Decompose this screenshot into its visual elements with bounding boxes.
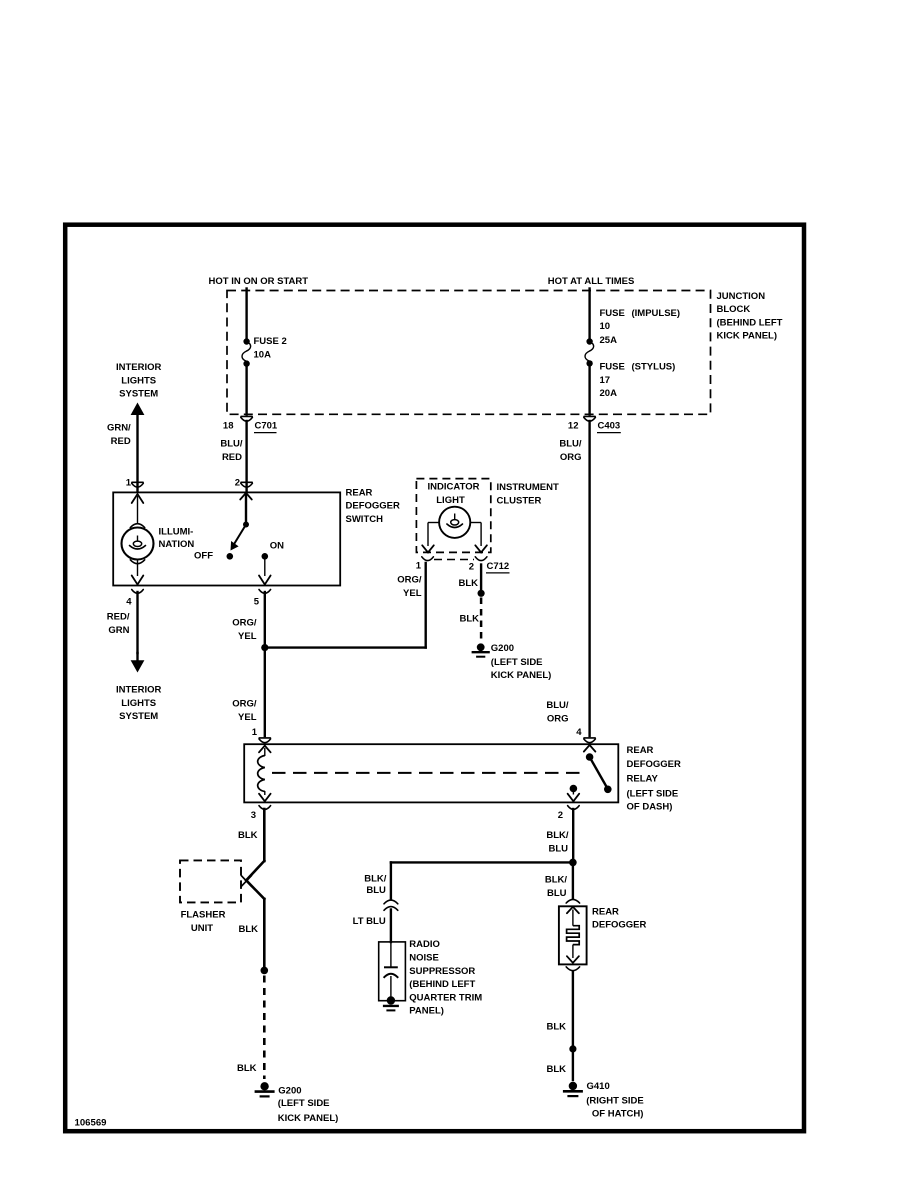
svg-text:(IMPULSE): (IMPULSE) bbox=[632, 308, 681, 319]
svg-text:18: 18 bbox=[223, 421, 234, 432]
svg-text:BLU/: BLU/ bbox=[559, 438, 582, 449]
switch S1 REAR DEFOGGER SWITCH box bbox=[113, 492, 340, 585]
relay coil bbox=[258, 746, 271, 802]
flasher unit dashed box bbox=[180, 860, 241, 933]
svg-text:NOISE: NOISE bbox=[409, 952, 439, 963]
node splice BLK bbox=[478, 590, 485, 597]
node splice BLK defogger bbox=[569, 1045, 576, 1052]
svg-text:(BEHIND LEFT: (BEHIND LEFT bbox=[717, 317, 783, 328]
switch arm OFF/ON bbox=[194, 493, 252, 562]
wire BLK (defogger to splice) bbox=[546, 972, 572, 1046]
svg-text:C403: C403 bbox=[598, 421, 621, 432]
relay switch arm bbox=[584, 745, 612, 793]
svg-text:ILLUMI-: ILLUMI- bbox=[159, 526, 194, 537]
arrow to interior lights system (bottom) bbox=[116, 653, 162, 722]
capacitor C RADIO NOISE SUPPRESSOR box bbox=[379, 939, 483, 1017]
svg-text:(BEHIND LEFT: (BEHIND LEFT bbox=[409, 979, 475, 990]
wire kink at flasher unit bbox=[246, 861, 264, 880]
svg-text:FUSE: FUSE bbox=[600, 361, 625, 372]
ground G200 (left side kick panel) upper bbox=[472, 643, 552, 681]
svg-text:3: 3 bbox=[251, 810, 256, 821]
wire RED/GRN (pin 4 down) bbox=[107, 592, 138, 653]
svg-text:RELAY: RELAY bbox=[627, 774, 659, 785]
fuse F2 (FUSE 2 10A) bbox=[242, 336, 287, 367]
svg-text:HOT IN ON OR START: HOT IN ON OR START bbox=[209, 276, 309, 287]
node splice BLK/BLU bbox=[569, 859, 577, 867]
relay label bbox=[627, 745, 682, 812]
label ORG/YEL at C712 pin 1 bbox=[397, 574, 422, 598]
svg-text:BLU: BLU bbox=[548, 844, 568, 855]
wire fuses to connector C403 bbox=[588, 363, 590, 414]
svg-text:RED: RED bbox=[222, 452, 242, 463]
wire BLK dashed to ground G200 bbox=[459, 598, 481, 645]
svg-text:NATION: NATION bbox=[159, 539, 195, 550]
svg-text:FLASHER: FLASHER bbox=[181, 909, 226, 920]
svg-text:10A: 10A bbox=[254, 350, 272, 361]
svg-text:(LEFT SIDE: (LEFT SIDE bbox=[491, 657, 543, 668]
svg-text:LIGHTS: LIGHTS bbox=[121, 375, 156, 386]
connector pin 4 of switch bbox=[126, 590, 143, 608]
svg-text:INTERIOR: INTERIOR bbox=[116, 684, 162, 695]
svg-text:ORG: ORG bbox=[547, 713, 569, 724]
svg-text:BLU: BLU bbox=[547, 888, 567, 899]
svg-text:BLK/: BLK/ bbox=[546, 830, 569, 841]
svg-text:INSTRUMENT: INSTRUMENT bbox=[497, 482, 559, 493]
svg-text:SWITCH: SWITCH bbox=[346, 514, 384, 525]
svg-text:17: 17 bbox=[600, 375, 611, 386]
svg-text:10: 10 bbox=[600, 321, 611, 332]
svg-text:FUSE 2: FUSE 2 bbox=[254, 336, 287, 347]
svg-text:5: 5 bbox=[254, 597, 260, 608]
wire BLK from C712 pin 2 bbox=[458, 565, 481, 591]
svg-text:BLK: BLK bbox=[546, 1022, 566, 1033]
svg-text:ORG/: ORG/ bbox=[397, 574, 422, 585]
svg-text:JUNCTION: JUNCTION bbox=[717, 291, 766, 302]
relay output contact bbox=[568, 785, 580, 802]
ground G410 (right side of hatch) bbox=[563, 1081, 644, 1119]
heater element REAR DEFOGGER box bbox=[559, 906, 647, 964]
connector pin 2 of defogger switch bbox=[235, 477, 253, 488]
wire LT BLU to suppressor bbox=[353, 910, 391, 943]
svg-text:G200: G200 bbox=[278, 1086, 301, 1097]
svg-text:25A: 25A bbox=[600, 335, 618, 346]
svg-text:1: 1 bbox=[416, 560, 422, 571]
svg-text:PANEL): PANEL) bbox=[409, 1006, 444, 1017]
ground G200 (left side kick panel) lower bbox=[255, 1082, 339, 1124]
svg-text:DEFOGGER: DEFOGGER bbox=[627, 759, 682, 770]
wire hot-in-on feed above fuse 2 bbox=[245, 289, 247, 342]
svg-text:BLK: BLK bbox=[238, 830, 258, 841]
svg-text:1: 1 bbox=[126, 477, 132, 488]
wire ORG/YEL branch to indicator light bbox=[265, 646, 426, 648]
connector C403 pin 12 bbox=[568, 416, 621, 432]
svg-text:BLK: BLK bbox=[459, 614, 479, 625]
connector below rear defogger bbox=[566, 967, 579, 971]
wire BLK/BLU (splice down to rear defogger) bbox=[545, 862, 573, 899]
relay actuation dashed link bbox=[272, 772, 580, 774]
svg-text:QUARTER TRIM: QUARTER TRIM bbox=[409, 992, 482, 1003]
connector pin 1 of defogger switch bbox=[126, 477, 144, 488]
wire BLK dashed to ground G200 lower bbox=[237, 976, 264, 1080]
connector pin 3 of relay bbox=[251, 806, 271, 822]
svg-text:LT BLU: LT BLU bbox=[353, 916, 386, 927]
ground at suppressor bbox=[383, 996, 399, 1010]
svg-text:BLK/: BLK/ bbox=[364, 874, 387, 885]
svg-text:GRN: GRN bbox=[108, 625, 129, 636]
wire fuse 2 to connector C701 bbox=[245, 364, 247, 415]
svg-text:ORG/: ORG/ bbox=[232, 698, 257, 709]
wire BLK to ground G410 bbox=[546, 1053, 572, 1081]
wire BLK (relay pin 3 to flasher kink) bbox=[238, 809, 264, 861]
svg-text:ORG/: ORG/ bbox=[232, 617, 257, 628]
svg-text:106569: 106569 bbox=[75, 1117, 107, 1128]
svg-text:1: 1 bbox=[252, 727, 258, 738]
svg-text:REAR: REAR bbox=[592, 906, 619, 917]
svg-text:(RIGHT SIDE: (RIGHT SIDE bbox=[586, 1095, 644, 1106]
svg-text:FUSE: FUSE bbox=[600, 308, 625, 319]
svg-text:G410: G410 bbox=[587, 1081, 610, 1092]
fuse F10 (IMPULSE) / F17 (STYLUS) bbox=[585, 308, 680, 399]
svg-text:REAR: REAR bbox=[346, 487, 373, 498]
instrument cluster dashed enclosure bbox=[416, 479, 490, 553]
svg-text:RED: RED bbox=[111, 436, 131, 447]
rear defogger switch label bbox=[346, 487, 401, 524]
wire hot-at-all-times feed above fuses bbox=[588, 289, 590, 342]
svg-text:BLK: BLK bbox=[237, 1063, 257, 1074]
svg-text:(LEFT SIDE: (LEFT SIDE bbox=[627, 788, 679, 799]
relay K1 REAR DEFOGGER RELAY box bbox=[244, 744, 618, 802]
svg-text:C712: C712 bbox=[487, 561, 510, 572]
svg-text:REAR: REAR bbox=[627, 745, 654, 756]
wire ORG/YEL (junction down to relay pin 1) bbox=[232, 648, 265, 736]
svg-text:HOT AT ALL TIMES: HOT AT ALL TIMES bbox=[548, 276, 635, 287]
svg-text:GRN/: GRN/ bbox=[107, 422, 131, 433]
svg-text:BLK: BLK bbox=[238, 924, 258, 935]
svg-text:BLU/: BLU/ bbox=[220, 438, 243, 449]
connector C701 pin 18 bbox=[223, 416, 278, 432]
svg-text:RADIO: RADIO bbox=[409, 939, 440, 950]
lamp indicator light bbox=[422, 482, 487, 553]
arrow to interior lights system (top) bbox=[116, 362, 162, 415]
svg-text:ON: ON bbox=[270, 541, 284, 552]
svg-text:KICK PANEL): KICK PANEL) bbox=[717, 331, 778, 342]
wire BLK (flasher kink down to splice) bbox=[238, 899, 264, 967]
svg-text:UNIT: UNIT bbox=[191, 923, 213, 934]
wire BLK/BLU drop to in-line connector bbox=[364, 862, 391, 898]
svg-text:YEL: YEL bbox=[238, 631, 257, 642]
svg-text:SYSTEM: SYSTEM bbox=[119, 711, 158, 722]
svg-text:OF HATCH): OF HATCH) bbox=[592, 1108, 644, 1119]
svg-text:DEFOGGER: DEFOGGER bbox=[346, 501, 401, 512]
connector pin 2 of relay bbox=[558, 806, 579, 822]
svg-text:RED/: RED/ bbox=[107, 611, 130, 622]
svg-text:G200: G200 bbox=[491, 643, 514, 654]
connector pin 5 of switch bbox=[254, 590, 271, 608]
svg-text:BLK: BLK bbox=[458, 578, 478, 589]
wire GRN/RED (switch pin 1 up to interior lights) bbox=[107, 413, 138, 491]
page frame bbox=[65, 225, 804, 1131]
svg-text:ORG: ORG bbox=[560, 452, 582, 463]
svg-text:2: 2 bbox=[469, 561, 474, 572]
connector C712 pins 1 and 2 bbox=[416, 557, 510, 573]
svg-text:(STYLUS): (STYLUS) bbox=[632, 361, 676, 372]
wire riser to C712 pin 1 bbox=[425, 563, 427, 648]
flasher tap X mark bbox=[241, 875, 252, 887]
svg-text:12: 12 bbox=[568, 421, 579, 432]
connector above rear defogger bbox=[566, 899, 579, 903]
svg-text:OFF: OFF bbox=[194, 551, 213, 562]
connector pin 1 of relay bbox=[252, 727, 271, 743]
wire BLK/BLU (relay pin 2 down to splice) bbox=[546, 809, 573, 862]
svg-text:C701: C701 bbox=[255, 421, 278, 432]
svg-text:BLK/: BLK/ bbox=[545, 875, 568, 886]
svg-text:BLOCK: BLOCK bbox=[717, 304, 751, 315]
svg-text:SUPPRESSOR: SUPPRESSOR bbox=[409, 966, 475, 977]
svg-text:2: 2 bbox=[558, 810, 563, 821]
node splice BLK flasher branch bbox=[261, 967, 269, 975]
svg-text:BLK: BLK bbox=[546, 1064, 566, 1075]
wire BLK/BLU branch to radio noise suppressor bbox=[391, 861, 573, 863]
svg-text:2: 2 bbox=[235, 477, 240, 488]
svg-text:BLU/: BLU/ bbox=[546, 700, 569, 711]
junction block dashed enclosure bbox=[227, 291, 711, 415]
svg-text:BLU: BLU bbox=[366, 885, 386, 896]
svg-text:CLUSTER: CLUSTER bbox=[497, 495, 542, 506]
svg-text:20A: 20A bbox=[600, 388, 618, 399]
wire BLU/ORG (C403 down to relay pin 4) bbox=[546, 421, 589, 736]
svg-text:KICK PANEL): KICK PANEL) bbox=[491, 670, 552, 681]
svg-text:4: 4 bbox=[576, 727, 582, 738]
wire ORG/YEL (pin 5 to junction) bbox=[232, 592, 265, 648]
wire BLU/RED (C701 to switch pin 2) bbox=[220, 421, 246, 491]
svg-text:4: 4 bbox=[126, 597, 132, 608]
contact ON bbox=[259, 541, 284, 585]
svg-text:SYSTEM: SYSTEM bbox=[119, 389, 158, 400]
svg-text:YEL: YEL bbox=[238, 712, 257, 723]
svg-text:DEFOGGER: DEFOGGER bbox=[592, 919, 647, 930]
svg-text:LIGHTS: LIGHTS bbox=[121, 698, 156, 709]
instrument cluster label bbox=[497, 482, 559, 506]
svg-text:YEL: YEL bbox=[403, 588, 422, 599]
svg-text:KICK PANEL): KICK PANEL) bbox=[278, 1113, 339, 1124]
lamp illumination (inside switch) bbox=[122, 494, 195, 585]
svg-text:(LEFT SIDE: (LEFT SIDE bbox=[278, 1098, 330, 1109]
in-line connector to suppressor bbox=[384, 900, 398, 910]
node junction ORG/YEL splice bbox=[261, 644, 268, 651]
svg-text:LIGHT: LIGHT bbox=[436, 495, 465, 506]
svg-text:OF DASH): OF DASH) bbox=[627, 801, 673, 812]
junction block label bbox=[717, 291, 783, 342]
svg-text:INDICATOR: INDICATOR bbox=[428, 482, 480, 493]
svg-text:INTERIOR: INTERIOR bbox=[116, 362, 162, 373]
connector pin 4 of relay bbox=[576, 727, 595, 743]
